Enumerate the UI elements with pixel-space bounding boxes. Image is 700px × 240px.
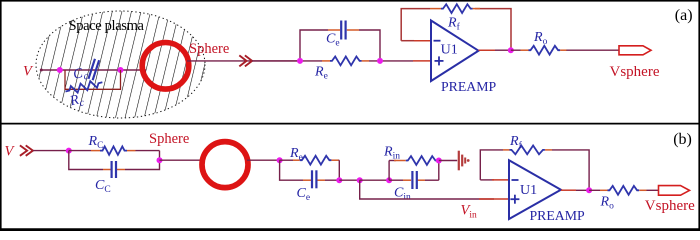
wire output to node (a) [495,49,511,51]
capacitor Ce leads (b) [303,179,311,181]
resistor Rin leads [394,160,406,162]
resistor Rc (tilted, in plasma) [65,78,104,95]
resistor Re zigzag (a) [330,57,362,66]
Re top branch (b) [280,159,293,161]
Cin bottom branch wires [389,179,403,181]
svg-text:PREAMP: PREAMP [530,208,586,223]
wire start pin dot [40,69,43,72]
resistor Rin zigzag [406,156,438,165]
capacitor Cc (tilted, in plasma) [88,59,99,80]
svg-text:PREAMP: PREAMP [441,79,497,94]
wire sphere to chevron [187,60,300,62]
chevron >> (a) [239,55,252,66]
resistor Rf leads (a) [430,8,441,10]
plasma equivalent box wire [65,70,121,89]
wire Re to opamp [369,60,413,62]
svg-text:(a): (a) [675,7,693,24]
chevron >> (b) [20,145,33,155]
svg-text:U1: U1 [441,43,458,58]
Rc top branch wires [69,150,91,152]
node dot right of Rc/Cc [157,157,163,163]
svg-text:Sphere: Sphere [149,131,189,147]
node dot left of Rin/Cin [386,177,392,183]
Rin loop left vertical [388,161,390,181]
opamp output lead (a) [479,49,496,51]
bottom border emphasis [0,228,700,231]
opamp + input lead (b) [479,198,509,200]
resistor Re zigzag (b) [300,156,332,165]
Rin loop right vertical [438,161,440,181]
node dot left of Rc/Cc [66,148,72,154]
Ce bottom branch wires (b) [280,160,303,180]
wire node to Ro (a) [511,49,521,51]
output port connector (a) [619,46,651,55]
wire V to node (b) [33,150,69,152]
Vin tap node dot [357,177,363,183]
sphere circle (b) [202,142,248,188]
opamp + input lead (a) [413,60,431,62]
svg-text:Sphere: Sphere [189,41,229,57]
capacitor Ce plates (b) [312,170,316,188]
wire output to node (b) [576,189,589,191]
wire from V into sphere [40,69,146,71]
node dot right-bottom of Re/Ce (b) [336,177,342,183]
resistor Re leads (a) [322,60,330,62]
plus sign (a) [435,56,444,65]
minus sign (a) [434,40,441,42]
opamp - input lead (a) [401,40,414,42]
panel divider line [0,123,700,125]
resistor Rf zigzag (a) [441,4,473,13]
space plasma ellipse (hatched, dotted outline) [36,11,205,118]
wire Ro to connector (b) [647,189,659,191]
output node dot (a) [508,47,514,53]
svg-text:Space plasma: Space plasma [69,18,145,34]
feedback loop wire (b) left [480,150,503,180]
resistor Ro leads (b) [600,189,608,191]
svg-text:Vsphere: Vsphere [645,198,695,214]
capacitor Cin leads [403,179,411,181]
node dot left of Re/Ce (b) [277,157,283,163]
opamp - input lead (b) [480,179,494,181]
feedback loop wire (a) left+top [401,9,430,41]
Cc bottom branch wires [69,151,103,170]
wire chevron to node [252,60,300,62]
wire to Vin tap [339,179,359,181]
capacitor Ce leads [328,29,340,31]
capacitor Cc plates (b) [112,161,116,178]
svg-text:Vsphere: Vsphere [610,64,660,80]
node dot at Rin top right [436,158,442,164]
svg-text:(b): (b) [673,131,692,148]
wire Ro to connector (a) [567,49,620,51]
minus sign (b) [512,179,519,181]
wire tap to Rin loop [360,179,389,181]
Vin wire (tap down and right to + input) [360,180,494,199]
svg-text:U1: U1 [520,183,537,198]
capacitor Cin plates [412,171,416,189]
resistor Rc leads (b) [91,150,100,152]
resistor Rf leads (b) [503,149,510,151]
wire node to sphere (b) [160,159,205,161]
op-amp U1 triangle (a) [431,21,479,82]
node dot left of Ce/Re [297,58,303,64]
junction dot (left, in plasma) [57,67,63,73]
resistor Rc zigzag (b) [100,146,127,154]
wire node to Re [300,60,322,62]
op-amp U1 triangle (b) [509,160,561,219]
plus sign (b) [510,195,519,204]
wire sphere to node (b) [247,159,280,161]
sphere circle (a) [142,43,189,90]
resistor Ro zigzag (a) [529,46,561,55]
Ce branch wire (top loop) [300,30,328,61]
junction dot (right, in plasma) [118,67,124,73]
capacitor Cc leads (b) [103,169,111,171]
feedback loop wire (a) right [475,9,511,51]
capacitor Ce plates [341,21,345,40]
resistor Ro leads (a) [521,49,529,51]
wire to ground [439,160,457,162]
resistor Rf zigzag (b) [510,145,545,154]
ground symbol [459,151,470,171]
Rin top branch wires [389,160,396,162]
node dot right of Ce/Re [377,58,383,64]
output node dot (b) [586,187,592,193]
wire node to Ro (b) [589,189,600,191]
output port connector (b) [659,186,690,196]
resistor Ro zigzag (b) [608,186,640,195]
opamp output lead (b) [561,189,576,191]
resistor Re leads (b) [293,159,300,161]
feedback loop wire (b) right [552,150,589,190]
